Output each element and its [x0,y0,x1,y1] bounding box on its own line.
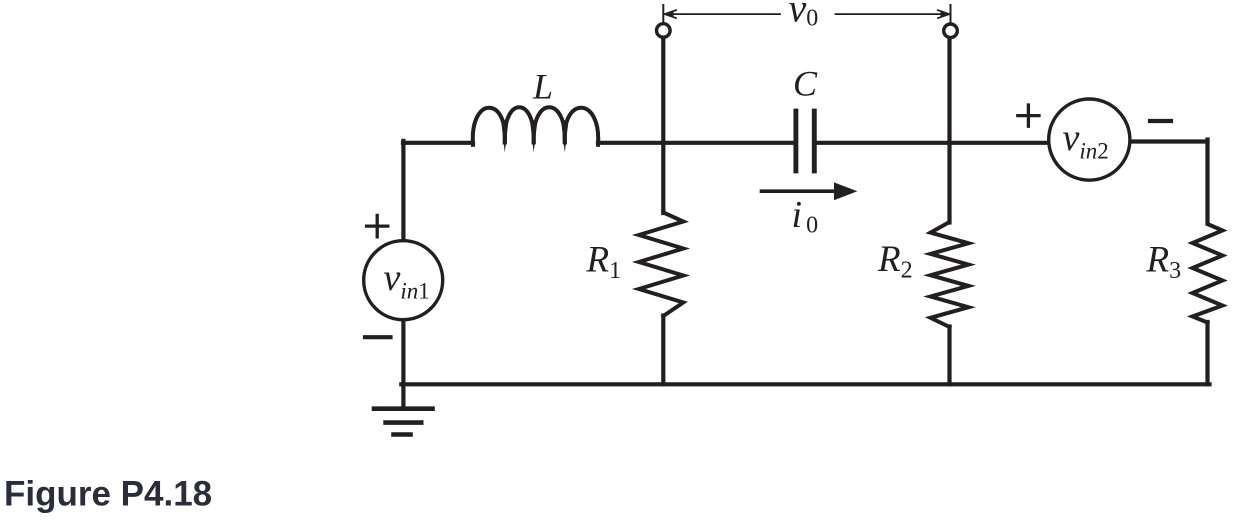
wire: node branch, terminal b down through R2 junction [947,38,951,223]
wire: right vertical, R3 to bottom rail [1205,322,1209,384]
svg-text:v0: v0 [789,0,819,32]
wire: top horizontal, source to inductor [403,141,473,145]
resistor R3 zigzag [1193,223,1223,323]
wire: left vertical above source v_in1 [401,141,405,241]
terminal node b (open circle) [944,24,958,38]
plus sign at v_in1 [367,215,388,236]
source v_in2 circle [1049,99,1130,180]
inductor L (coil arches) [473,107,598,145]
wire: top horizontal, capacitor right plate to v_in2 [817,141,1049,145]
svg-text:L: L [532,67,553,107]
ground symbol [374,406,433,411]
v0 dimension left line with arrow [666,13,781,15]
capacitor C plates [793,109,798,174]
v0 dimension right line with arrow [836,13,949,15]
svg-text:R2: R2 [877,239,913,284]
wire: right vertical, corner to R3 [1205,140,1209,224]
svg-text:R1: R1 [586,240,622,285]
wire: node branch, terminal a down through R1 junction [661,38,665,213]
svg-text:C: C [793,64,818,104]
wire: left vertical below source to bottom rail [401,320,405,387]
plus sign at v_in2 [1018,105,1039,126]
wire: R1 bottom to bottom rail [661,316,665,385]
resistor R2 zigzag [931,221,969,327]
wire: bottom rail [401,382,1209,386]
terminal node a (open circle) [657,24,671,38]
svg-text:i0: i0 [792,194,819,239]
v0 dimension left tick [662,5,664,22]
source v_in1 circle [364,241,443,320]
resistor R1 zigzag [639,211,684,316]
minus sign at v_in2 [1150,119,1171,123]
i0 current arrow [762,189,839,193]
svg-text:Figure P4.18: Figure P4.18 [4,475,212,514]
wire: ground stem [401,384,405,409]
svg-text:R3: R3 [1146,240,1182,285]
v0 dimension right tick [950,5,952,22]
wire: R2 bottom to bottom rail [947,327,951,385]
wire: top horizontal, inductor to capacitor left plate [598,141,794,145]
minus sign at v_in1 [365,335,391,339]
inductor L inner loop spikes [502,120,569,152]
wire: top horizontal, v_in2 to right corner [1130,139,1207,143]
